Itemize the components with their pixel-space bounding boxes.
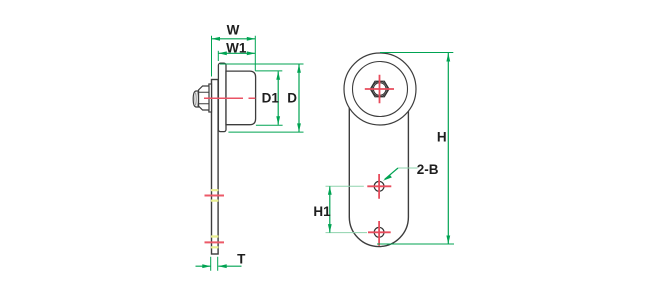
dome cap shading arcs — [195, 92, 198, 107]
red centre line of roller axis — [204, 97, 255, 99]
mounting plate (side view) — [212, 80, 219, 255]
red crosshair of axle — [365, 75, 394, 103]
hex nut (side view) — [199, 86, 210, 110]
svg-text:H1: H1 — [313, 204, 331, 219]
axle bore circle — [373, 83, 386, 96]
red centre mark upper hole (side view) — [205, 195, 225, 197]
svg-text:T: T — [237, 251, 246, 266]
dimension T arrowheads — [202, 264, 226, 268]
dimension D line — [298, 64, 300, 132]
axle hex nut (front view) — [370, 81, 389, 97]
axle washer circle — [372, 81, 387, 96]
dimension W1 line — [218, 52, 255, 54]
dimension D1 line — [277, 71, 279, 125]
leader line 2-B diagonal — [385, 168, 398, 179]
dimension H1 extension lines (pale) — [326, 186, 368, 232]
yellow hidden edges lower hole (side view) — [211, 237, 218, 248]
dimension D extension lines — [220, 64, 304, 132]
dimension T arrow lines — [196, 265, 242, 267]
bottom hole B (front view) — [374, 227, 384, 237]
svg-text:W1: W1 — [226, 41, 247, 56]
roller flange (side view) — [218, 63, 226, 131]
dimension H1 line — [329, 186, 331, 232]
dimension T extension lines — [211, 257, 218, 271]
dimension W extension lines — [212, 36, 256, 77]
dimension H arrowheads — [446, 53, 450, 244]
yellow hidden edges upper hole (side view) — [211, 190, 218, 200]
dimension W1 arrowheads — [218, 51, 255, 55]
hex nut facet lines — [199, 92, 210, 104]
svg-text:D: D — [287, 91, 297, 106]
svg-text:D1: D1 — [262, 91, 280, 106]
roller drum (side view) — [226, 71, 256, 125]
svg-text:2-B: 2-B — [417, 162, 439, 177]
leader line 2-B (pale horizontal) — [398, 167, 418, 169]
dimension H extension lines — [377, 53, 454, 245]
dimension D1 arrowheads — [276, 71, 280, 125]
bracket body outline (front view) — [349, 108, 408, 247]
leader 2-B arrowhead — [383, 175, 392, 181]
roller outer circle (front view) — [344, 53, 416, 125]
middle hole B (front view) — [374, 181, 384, 191]
svg-text:H: H — [437, 130, 447, 145]
dimension H1 arrowheads — [328, 186, 332, 232]
dimension D1 extension lines — [255, 71, 282, 125]
roller inner circle (front view) — [353, 62, 408, 117]
dimension W line — [212, 38, 256, 40]
dome cap of bolt (side view) — [193, 91, 198, 107]
dimension H line — [447, 53, 449, 244]
washer (side view) — [209, 84, 212, 112]
red centre mark lower hole (side view) — [205, 241, 225, 243]
red crosshair of middle hole — [367, 174, 391, 199]
dimension W1 extension line — [217, 51, 219, 61]
red crosshair of bottom hole — [368, 221, 391, 246]
dimension W arrowheads — [212, 37, 256, 41]
dimension D arrowheads — [297, 64, 301, 132]
svg-text:W: W — [227, 22, 240, 37]
